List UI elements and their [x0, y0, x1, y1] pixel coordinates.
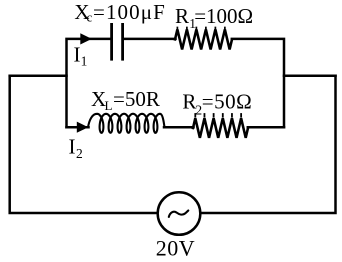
resistor R2 tick marks — [194, 114, 196, 117]
wire — [164, 126, 194, 129]
capacitor C1 X_C=100uF — [110, 24, 113, 59]
arrow I1 — [80, 33, 92, 44]
svg-text:L: L — [105, 98, 113, 113]
wire — [284, 75, 336, 78]
svg-text:2: 2 — [76, 146, 83, 161]
resistor R2 — [193, 118, 248, 138]
svg-text:R: R — [182, 90, 196, 114]
wire — [10, 75, 67, 78]
svg-text:c: c — [87, 9, 93, 24]
svg-text:=100Ω: =100Ω — [194, 4, 253, 28]
wire — [10, 76, 158, 213]
wire — [67, 39, 111, 127]
wire — [67, 126, 89, 129]
inductor L1 X_L=50R — [88, 114, 165, 133]
resistor R1 tick marks — [176, 28, 178, 31]
wire — [232, 39, 284, 127]
wire — [248, 126, 284, 129]
svg-text:=50R: =50R — [113, 87, 160, 111]
svg-text:I: I — [69, 135, 76, 159]
svg-text:20V: 20V — [156, 235, 195, 260]
svg-text:I: I — [74, 42, 81, 66]
svg-text:1: 1 — [81, 54, 88, 69]
arrow I2 — [77, 122, 89, 133]
wire — [201, 76, 336, 213]
svg-text:=100μF: =100μF — [93, 0, 166, 24]
wire — [124, 38, 176, 41]
svg-text:R: R — [175, 4, 189, 28]
resistor R1 — [175, 29, 232, 49]
svg-text:=50Ω: =50Ω — [202, 90, 252, 114]
AC source 20V — [158, 192, 201, 235]
